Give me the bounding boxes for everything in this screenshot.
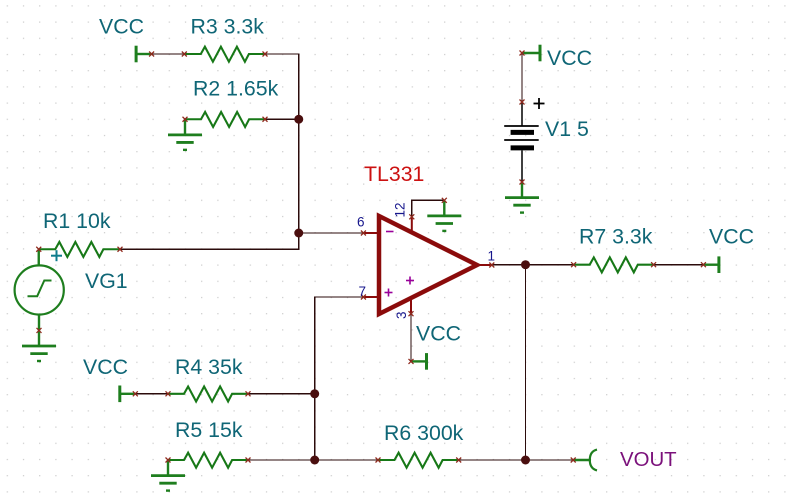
resistor R3 bbox=[184, 47, 264, 62]
R4 pin 1 mark bbox=[166, 391, 171, 396]
R6 pin 1 mark bbox=[376, 458, 381, 463]
resistor R7 bbox=[573, 257, 654, 272]
svg-text:12: 12 bbox=[393, 202, 408, 217]
wire pin 7 to R4/R5 trunk bbox=[315, 297, 364, 460]
R3 pin 2 mark bbox=[263, 52, 268, 57]
resistor R4 bbox=[168, 387, 249, 402]
svg-text:TL331: TL331 bbox=[364, 162, 424, 186]
VG1 plus marker bbox=[51, 250, 62, 261]
VCC terminal T5 for V1 bbox=[522, 45, 540, 62]
R1 pin 2 mark bbox=[118, 247, 123, 252]
svg-text:1: 1 bbox=[488, 249, 496, 264]
V1 VCC terminal pin mark bbox=[520, 51, 525, 56]
svg-text:VCC: VCC bbox=[709, 225, 754, 249]
R6 pin 2 mark bbox=[456, 458, 461, 463]
wire R6 to VOUT bbox=[459, 459, 574, 461]
resistor R5 bbox=[168, 453, 249, 468]
wire pin 12 to ground bbox=[412, 200, 445, 217]
wire pin 3 to VCC terminal bbox=[410, 314, 412, 362]
svg-text:VCC: VCC bbox=[83, 355, 128, 379]
pin 1 stub bbox=[477, 264, 492, 266]
R4 terminal pin mark bbox=[133, 391, 138, 396]
R7 pin 2 mark bbox=[651, 262, 656, 267]
U1 pin 1 mark bbox=[489, 263, 494, 268]
ground G5 at pin 12 bbox=[427, 200, 461, 231]
pin 12 ground pin mark bbox=[442, 198, 447, 203]
svg-text:VOUT: VOUT bbox=[620, 449, 677, 471]
VCC terminal T1 for R3 bbox=[136, 46, 152, 63]
R7 pin 1 mark bbox=[571, 262, 576, 267]
svg-text:R5 15k: R5 15k bbox=[175, 418, 243, 442]
R2 pin 1 / ground mark bbox=[183, 117, 188, 122]
svg-text:VCC: VCC bbox=[99, 15, 144, 39]
resistor R6 bbox=[378, 453, 459, 468]
junction node R4 branch bbox=[310, 389, 319, 398]
V1 plus marker bbox=[534, 98, 545, 109]
svg-text:R7 3.3k: R7 3.3k bbox=[579, 225, 653, 249]
svg-text:VCC: VCC bbox=[416, 322, 461, 346]
R1 pin 1 / VG1 plus pin mark bbox=[36, 247, 41, 252]
VOUT terminal pin mark bbox=[571, 458, 576, 463]
voltage generator VG1 bbox=[15, 249, 64, 330]
VCC terminal T4 for R7 bbox=[703, 256, 719, 273]
svg-text:R4 35k: R4 35k bbox=[175, 355, 243, 379]
battery V1 bbox=[504, 102, 539, 182]
wire V1 top to VCC terminal bbox=[521, 53, 523, 102]
wire pin 1 to R7 bbox=[492, 264, 574, 266]
R2 pin 2 mark bbox=[263, 117, 268, 122]
junction node pin 6 branch bbox=[294, 229, 303, 238]
U1 pin 6 mark bbox=[361, 231, 366, 236]
R7 VCC terminal pin mark bbox=[701, 262, 706, 267]
svg-text:3: 3 bbox=[394, 311, 409, 319]
VOUT terminal bbox=[573, 450, 597, 471]
resistor R1 bbox=[39, 242, 120, 257]
wire R3 VCC terminal to R3 bbox=[152, 53, 185, 55]
pin 12 stub bbox=[411, 217, 413, 234]
op-amp U1 TL331 triangle bbox=[379, 216, 477, 314]
R5 pin 2 mark bbox=[246, 458, 251, 463]
wire R4 to trunk bbox=[248, 393, 315, 395]
svg-text:V1 5: V1 5 bbox=[545, 117, 589, 141]
svg-text:R1 10k: R1 10k bbox=[43, 209, 111, 233]
wire R2 to trunk bbox=[265, 118, 299, 120]
ground G3 under R5 bbox=[151, 460, 185, 491]
junction node R6/VOUT branch bbox=[521, 456, 530, 465]
svg-text:VCC: VCC bbox=[547, 46, 592, 70]
R4 pin 2 mark bbox=[246, 391, 251, 396]
junction node pin 1 branch bbox=[521, 260, 530, 269]
U1 pin 7 mark bbox=[361, 295, 366, 300]
pin 3 stub bbox=[410, 298, 412, 314]
pin 6 stub bbox=[363, 232, 377, 234]
wire R3 right to trunk down to R1 bbox=[120, 54, 299, 249]
V1 minus pin / ground mark bbox=[520, 180, 525, 185]
V1 plus pin mark bbox=[520, 100, 525, 105]
wire R4 VCC terminal to R4 bbox=[135, 393, 168, 395]
resistor R2 bbox=[185, 112, 266, 127]
svg-text:R6 300k: R6 300k bbox=[384, 421, 464, 445]
R3 pin 1 mark bbox=[182, 52, 187, 57]
wire R5 to R6 bbox=[248, 459, 378, 461]
wire trunk to pin 6 bbox=[299, 232, 364, 234]
pin 7 stub bbox=[363, 296, 377, 298]
U1 pin 12 mark bbox=[409, 214, 414, 219]
R3 pin 1 / terminal wire mark bbox=[149, 52, 154, 57]
ground G1 under R2 bbox=[168, 119, 202, 150]
VCC terminal T2 for R4 bbox=[120, 386, 136, 403]
svg-text:R3 3.3k: R3 3.3k bbox=[191, 15, 265, 39]
op-amp plus marker pin 7 bbox=[385, 289, 393, 297]
wire R7 to VCC terminal bbox=[654, 264, 704, 266]
U1 pin 3 mark bbox=[409, 311, 414, 316]
ground G2 under VG1 bbox=[22, 330, 56, 361]
junction node R5 branch bbox=[310, 456, 319, 465]
svg-text:7: 7 bbox=[359, 284, 367, 299]
svg-text:VG1: VG1 bbox=[85, 269, 128, 293]
VCC terminal T3 for pin 3 bbox=[411, 353, 427, 370]
VG1 minus pin / ground mark bbox=[37, 328, 42, 333]
op-amp plus marker center bbox=[406, 277, 414, 285]
svg-text:R2 1.65k: R2 1.65k bbox=[193, 77, 279, 101]
junction node R2/R3 trunk bbox=[294, 115, 303, 124]
op-amp minus marker bbox=[386, 231, 394, 233]
pin 3 VCC terminal pin mark bbox=[409, 359, 414, 364]
R5 pin 1 / ground mark bbox=[166, 458, 171, 463]
ground G4 under V1 bbox=[505, 182, 539, 213]
wire output trunk vertical bbox=[525, 265, 527, 460]
svg-text:6: 6 bbox=[357, 215, 365, 230]
